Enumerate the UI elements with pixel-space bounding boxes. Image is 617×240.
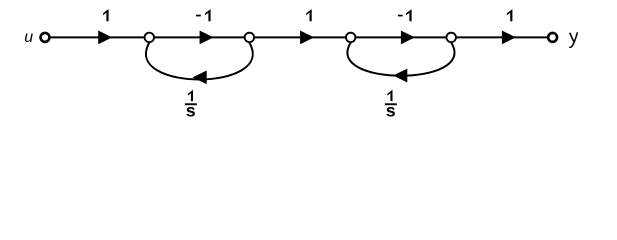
svg-text:u: u	[24, 29, 33, 46]
gain label 1/s (loop 1) fraction bar	[185, 103, 197, 105]
wire X3 to X4	[351, 36, 452, 38]
svg-text:s: s	[186, 101, 196, 121]
gain label -1 (branch 2) digit	[205, 9, 211, 21]
label y	[570, 33, 577, 47]
node X4	[446, 33, 456, 43]
node y (output terminal)	[548, 33, 557, 42]
node X1	[145, 33, 155, 43]
arrowhead feedback loop 2	[393, 69, 407, 83]
feedback arc 1/s loop 1	[146, 43, 253, 80]
arrowhead feedback loop 1	[193, 71, 207, 85]
gain label 1/s (loop 2) numerator	[387, 90, 392, 101]
arrowhead branch X4 to y	[502, 31, 516, 45]
gain label 1/s (loop 2) fraction bar	[385, 103, 397, 105]
wire u to node X1	[45, 36, 149, 38]
gain label -1 (branch 4) minus	[398, 15, 403, 17]
gain label 1 (branch 1)	[103, 9, 109, 21]
svg-text:s: s	[386, 101, 396, 121]
arrowhead branch X3 to X4	[401, 31, 415, 45]
gain label 1 (branch 3)	[306, 9, 312, 21]
wire X1 to X2	[149, 36, 249, 38]
node X2	[245, 33, 255, 43]
arrowhead branch X2 to X3	[300, 31, 314, 45]
wire X2 to X3	[249, 36, 350, 38]
gain label 1 (branch 5)	[507, 9, 513, 21]
feedback arc 1/s loop 2	[347, 43, 454, 76]
gain label 1/s (loop 1) numerator	[188, 90, 193, 101]
arrowhead branch X1 to X2	[200, 31, 214, 45]
node u (input terminal)	[41, 33, 50, 42]
gain label -1 (branch 2) minus	[196, 15, 201, 17]
wire X4 to y	[451, 36, 552, 38]
arrowhead branch u to X1	[98, 31, 112, 45]
node X3	[346, 33, 356, 43]
gain label -1 (branch 4) digit	[406, 9, 412, 21]
